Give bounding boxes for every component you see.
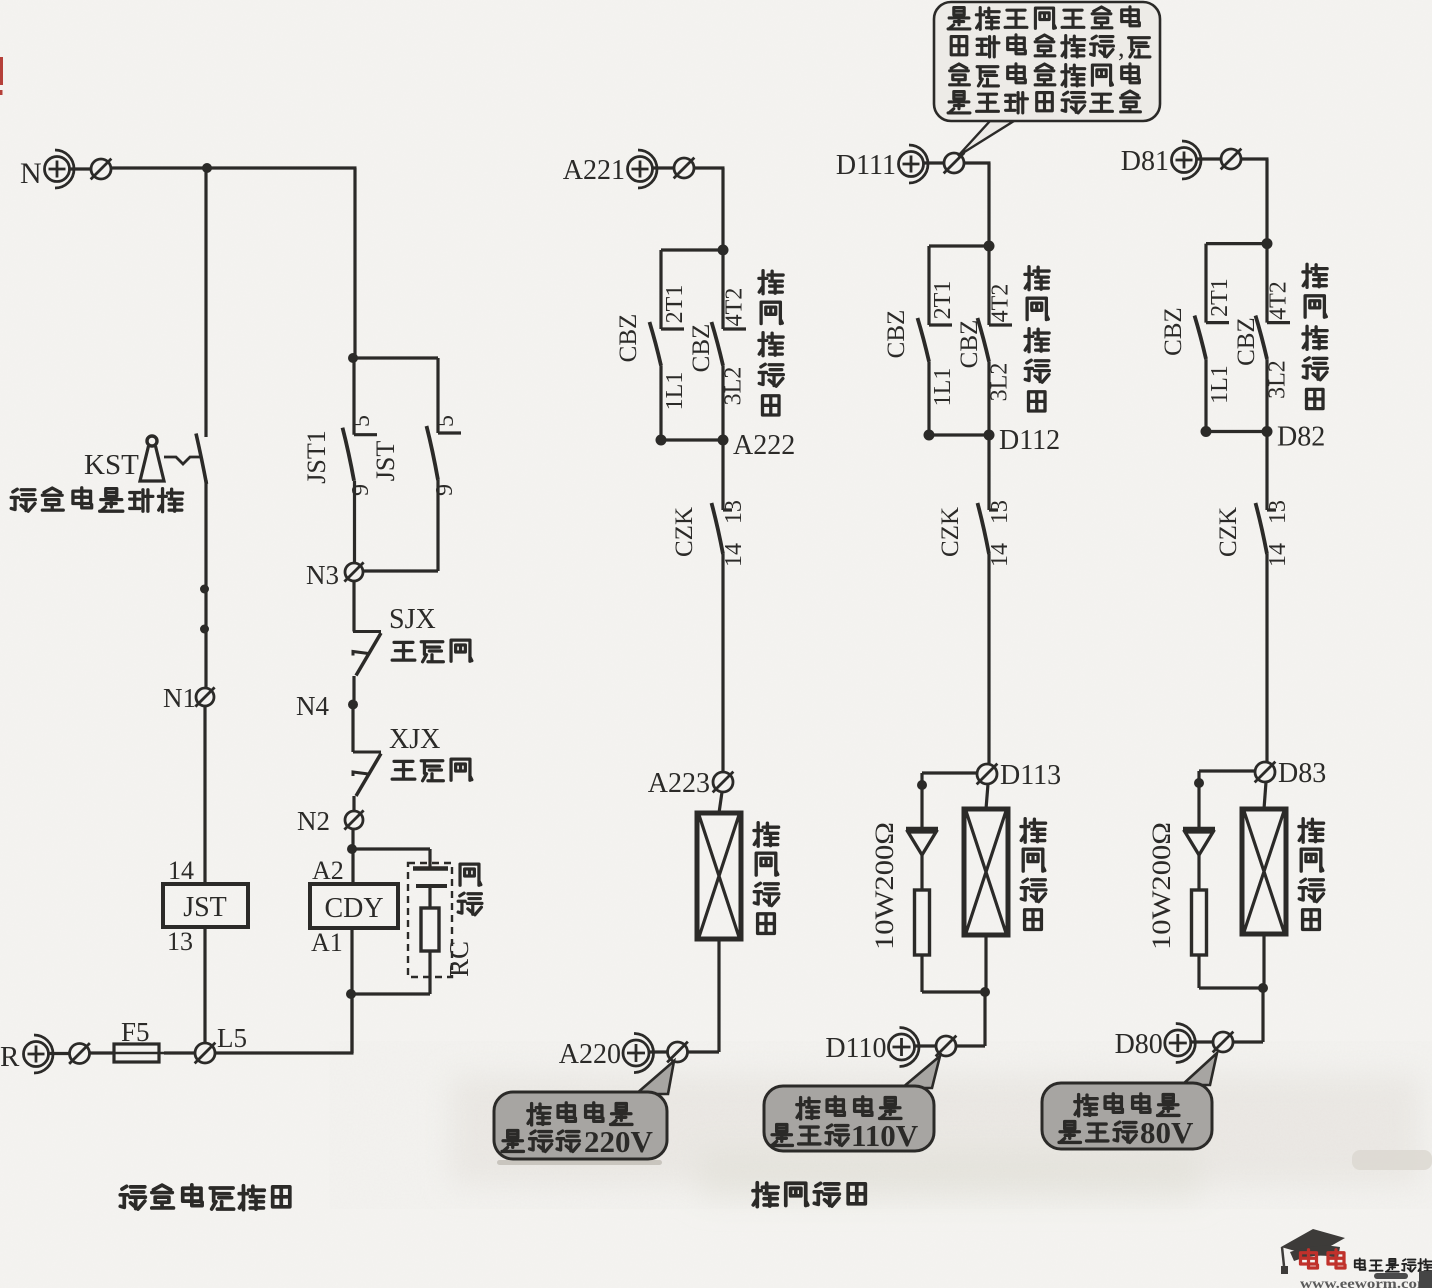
svg-text:80V: 80V [1140,1115,1194,1150]
svg-text:D80: D80 [1115,1029,1163,1060]
svg-text:14: 14 [987,543,1013,567]
svg-text:N4: N4 [296,691,329,721]
wire N4 down [351,704,354,752]
section label 锁梯电源部分 [120,1185,290,1210]
terminal D111 [836,145,965,183]
wire KST down [200,480,209,688]
svg-text:L5: L5 [217,1023,247,1053]
terminal D80 [1115,1024,1234,1063]
label 抱闸接触器 A [759,271,783,415]
svg-text:2T1: 2T1 [930,281,956,320]
svg-text:5: 5 [433,415,459,427]
svg-text:14: 14 [168,856,194,885]
diode D [906,829,938,890]
svg-text:13: 13 [167,927,193,956]
wire A221 to box [694,168,725,250]
svg-text:CBZ: CBZ [883,310,910,359]
label 抱闸接触器 D [1025,267,1049,411]
label SJX 上极限 [389,604,472,662]
limit switch XJX [353,752,381,811]
watermark 虫虫 (red) [1301,1250,1346,1268]
node at N split [202,163,212,173]
labels CBZ contacts E [1160,278,1292,404]
red edge mark [0,57,3,95]
svg-text:D110: D110 [825,1033,886,1064]
contact CZK A [712,440,733,772]
RC network dashed box [408,863,452,977]
diode branch wire E [1194,771,1255,827]
wire JST to L5 [203,927,206,1044]
svg-text:JST1: JST1 [302,430,331,483]
svg-text:4T2: 4T2 [1266,281,1292,320]
contactor CBZ parallel contacts D [918,246,1013,441]
node D113 [977,760,1062,791]
svg-text:A220: A220 [559,1039,621,1070]
label 抱闸线圈 E [1299,819,1324,930]
svg-text:13: 13 [987,500,1013,524]
terminal A221 [563,150,695,188]
label 锁梯钥匙开关 [11,488,182,512]
svg-text:XJX: XJX [389,724,440,755]
svg-text:A221: A221 [563,155,625,186]
callout bubble 供电电压是直流80V [1042,1053,1217,1150]
svg-text:5: 5 [349,415,375,427]
svg-text:9: 9 [348,484,374,496]
label 抱闸线圈 A [754,823,779,934]
svg-text:3L2: 3L2 [987,363,1013,402]
wire D81 to box [1241,159,1269,244]
labels CBZ contacts A [615,285,748,411]
callout bubble 供电电压是交流220V [494,1061,674,1159]
label 10W200Ω D [870,822,899,950]
resistor 10W200Ω E [1192,890,1264,988]
contactor CBZ parallel contacts A [650,250,747,446]
section label 抱闸线圈 [753,1183,865,1207]
diode E [1183,829,1215,890]
relay coil CDY [310,856,398,957]
labels CBZ contacts D [883,281,1014,407]
label XJX 下极限 [389,724,472,781]
RC wires [351,849,430,994]
fuse F5 [109,1017,164,1062]
bubble top text 此控制柜主要用/于旧电梯改造,根/据原电梯抱闸电/压不同可选一种 [948,7,1150,113]
wire coil to A220 [688,939,720,1052]
node box top A [718,245,729,256]
svg-text:CZK: CZK [671,507,698,557]
svg-text:1L1: 1L1 [662,372,688,411]
svg-text:N: N [20,157,42,190]
svg-text:A2: A2 [312,856,344,885]
switch KST (key switch) [84,434,207,485]
terminal D110 [825,1028,956,1067]
svg-text:1L1: 1L1 [1207,365,1233,404]
svg-text:CZK: CZK [937,507,964,557]
svg-text:N2: N2 [297,806,330,836]
svg-text:CBZ: CBZ [688,324,715,373]
node N2 [297,806,364,836]
resistor 10W200Ω D [915,890,986,992]
watermark smudges [1374,1271,1432,1288]
label JST [371,415,459,496]
brake coil D [964,784,1008,935]
svg-text:F5: F5 [121,1017,150,1047]
svg-text:CBZ: CBZ [956,320,983,369]
node A222 [733,430,795,461]
watermark 电子下载站 [1355,1258,1432,1271]
node JST branch split [348,353,358,363]
svg-text:JST: JST [183,892,227,923]
svg-text:14: 14 [721,543,747,567]
svg-text:4T2: 4T2 [722,288,748,327]
node L5 [164,1023,247,1063]
node N4 [296,691,358,721]
contact JST1 [343,358,378,563]
brake coil A [697,792,741,939]
svg-text:10W200Ω: 10W200Ω [870,822,899,950]
terminal A220 [559,1034,688,1073]
contact CZK D [978,435,999,764]
node A223 [648,768,734,799]
contact JST [427,426,462,571]
svg-text:D81: D81 [1121,146,1169,177]
wire N top [111,168,357,437]
svg-text:9: 9 [432,484,458,496]
node coil bottom E [1258,983,1268,993]
svg-text:D83: D83 [1278,758,1326,789]
svg-text:13: 13 [1265,500,1291,524]
node coil bottom D [980,987,990,997]
svg-text:10W200Ω: 10W200Ω [1147,822,1176,950]
svg-text:www.eeworm.com: www.eeworm.com [1300,1276,1432,1288]
svg-text:13: 13 [721,500,747,524]
node D82 [1277,422,1325,453]
svg-text:2T1: 2T1 [1207,278,1233,317]
callout bubble 供电电压是直流110V [764,1056,940,1153]
node box top E [1262,238,1273,249]
svg-text:4T2: 4T2 [988,284,1014,323]
label CZK A [671,500,747,567]
terminal D81 [1121,141,1242,179]
svg-text:CBZ: CBZ [615,314,642,363]
contact CZK E [1256,432,1277,763]
wire N3 down [352,581,355,632]
svg-text:1L1: 1L1 [930,368,956,407]
svg-text:RC: RC [444,941,474,977]
svg-text:,: , [1118,33,1125,62]
capacitor in RC [413,869,448,887]
svg-text:N1: N1 [163,683,196,713]
svg-text:2T1: 2T1 [662,285,688,324]
node N3 [306,560,438,590]
svg-text:D113: D113 [1000,760,1061,791]
limit switch SJX [353,632,381,701]
label 抱闸线圈 D [1021,819,1046,930]
label JST1 [302,415,375,496]
label 10W200Ω E [1147,822,1176,950]
node CDY bottom [346,989,356,999]
node D112 [999,425,1060,456]
svg-text:D82: D82 [1277,422,1325,453]
svg-text:CBZ: CBZ [1160,307,1187,356]
svg-text:CDY: CDY [324,893,383,924]
callout bubble top (note) [934,2,1160,156]
wire CDY down [350,928,353,1053]
terminal N [20,150,111,190]
label 抱闸接触器 E [1303,264,1327,408]
terminal R [0,1035,114,1073]
svg-text:D112: D112 [999,425,1060,456]
svg-text:110V: 110V [851,1118,919,1153]
svg-text:SJX: SJX [389,604,436,635]
svg-text:KST: KST [84,449,139,481]
svg-text:220V: 220V [584,1124,654,1159]
svg-text:A222: A222 [733,430,795,461]
watermark www.eeworm.com [1300,1276,1432,1288]
bottom wire to CDY branch [215,994,354,1053]
resistor in RC [421,908,439,951]
svg-text:CZK: CZK [1215,507,1242,557]
svg-text:A223: A223 [648,768,710,799]
node box top D [984,241,995,252]
wire N1 to JST coil [203,706,206,884]
diode branch wire D [917,773,977,827]
wire coil to D80 [1233,934,1264,1042]
svg-text:3L2: 3L2 [1265,360,1291,399]
brake coil E [1242,782,1286,934]
node D83 [1255,758,1327,789]
relay coil JST [163,856,248,956]
wire N2 down [347,829,357,884]
svg-text:CBZ: CBZ [1233,317,1260,366]
wire D111 to box [964,163,991,246]
svg-text:D111: D111 [836,150,896,181]
label CZK E [1215,500,1291,567]
node N1 [163,683,215,713]
svg-text:A1: A1 [311,928,343,957]
contactor CBZ parallel contacts E [1195,244,1291,437]
svg-text:JST: JST [371,441,400,482]
watermark logo cap [1281,1229,1345,1274]
svg-text:R: R [0,1041,20,1073]
label RC网络 [444,864,482,977]
wire parallel top [353,358,438,433]
wire coil to D110 [956,935,986,1046]
svg-text:3L2: 3L2 [721,367,747,406]
svg-text:14: 14 [1265,543,1291,567]
svg-text:N3: N3 [306,560,339,590]
label CZK D [937,500,1013,567]
